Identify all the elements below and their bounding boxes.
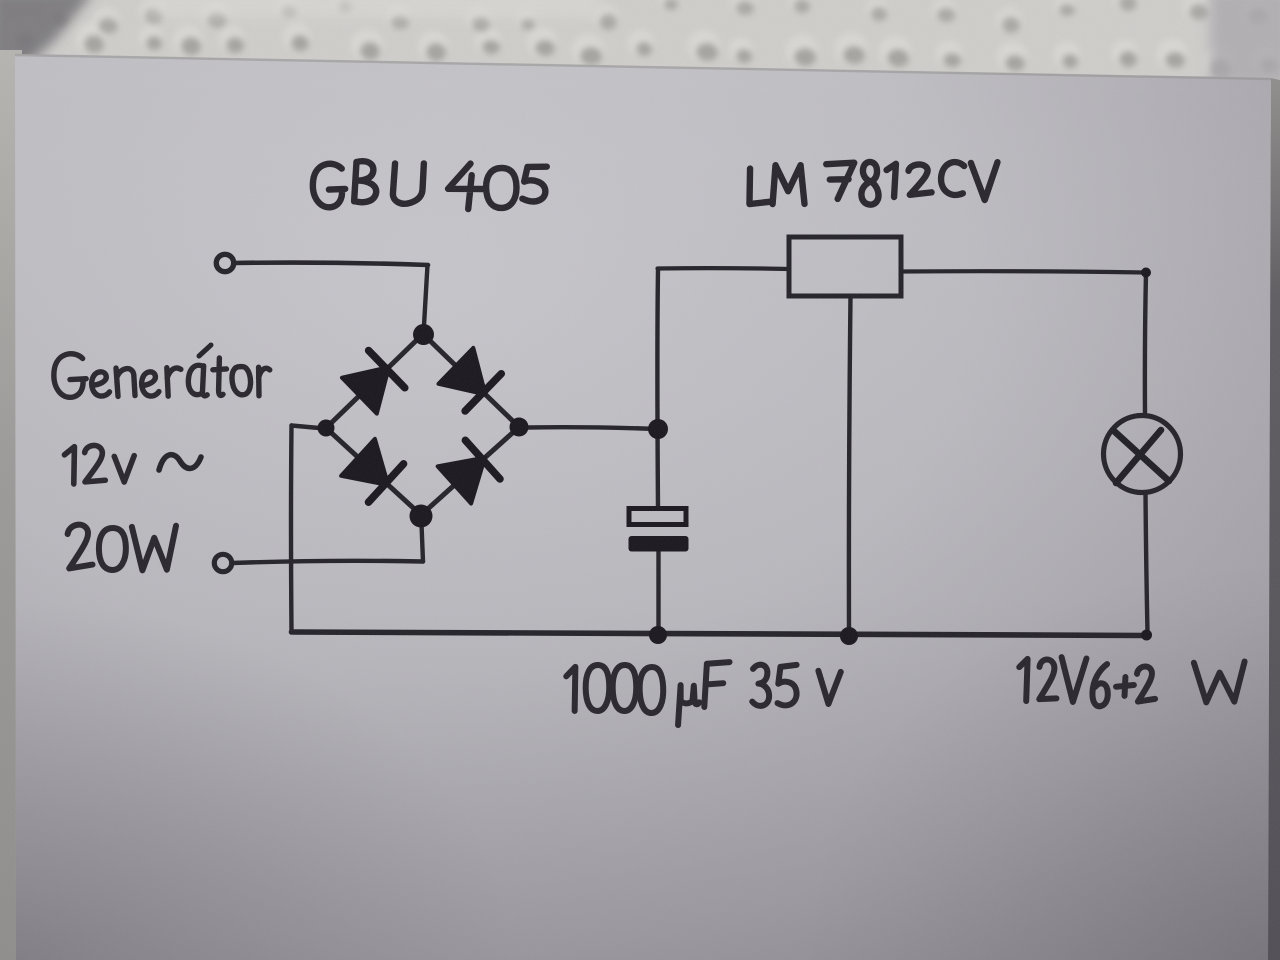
junction node: lamp corner top — [1141, 268, 1151, 278]
capacitor C1 top plate (hollow) — [629, 509, 686, 525]
junction node: capacitor top — [648, 419, 668, 439]
label 20W — [67, 524, 177, 571]
wire bridge bottom node down to 20W wire — [422, 524, 424, 562]
wire bridge right node to capacitor node — [527, 427, 658, 429]
lamp X cross — [1114, 430, 1169, 483]
label Generator — [54, 345, 270, 397]
contact shadow along top edge of paper — [15, 55, 1271, 79]
bottom rail wire — [292, 632, 1148, 636]
dark gap right of paper — [1268, 78, 1280, 960]
junction node: rail right end — [1141, 630, 1152, 641]
paper-towel background (top band) — [0, 0, 1280, 130]
wire left vertical down — [289, 426, 294, 632]
capacitor C1 bottom wire — [656, 551, 660, 633]
junction node: bridge left — [318, 420, 335, 437]
diode D1 (left-top arm) — [342, 351, 405, 414]
lamp L1 circle — [1104, 416, 1181, 493]
bridge GBU405 diamond wires — [326, 334, 519, 515]
corner vignettes on paper — [0, 0, 1, 1]
wire bottom terminal to bridge bottom leg — [232, 561, 423, 563]
AC tilde symbol — [159, 455, 201, 470]
regulator U1 box LM7812CV — [789, 237, 901, 296]
capacitor C1 bottom plate (solid) — [629, 536, 689, 552]
label 12V 6+2W (lamp rating) — [1019, 657, 1246, 706]
terminal (generator bottom) — [214, 554, 231, 571]
diode D3 (left-bottom arm) — [341, 439, 404, 502]
lamp bottom wire — [1146, 493, 1148, 633]
label GBU405 (bridge) — [313, 161, 547, 210]
wire lamp drop from corner — [1145, 273, 1146, 416]
diode D2 (top-right arm) — [439, 348, 502, 411]
junction node: capacitor bottom rail — [649, 626, 667, 644]
diode D4 (bottom-right arm) — [438, 440, 500, 503]
terminal (generator top) — [216, 254, 233, 271]
label 1000uF 35V (capacitor value) — [566, 662, 841, 726]
wire regulator ground pin — [849, 296, 851, 634]
wire top terminal to corner — [234, 263, 428, 265]
junction node: bridge bottom — [410, 505, 433, 528]
towel left strip below paper corner — [0, 50, 22, 960]
wire bridge left node to left corner — [292, 426, 320, 429]
wire regulator right to lamp corner — [901, 271, 1146, 272]
junction node: bridge top — [413, 324, 434, 345]
wire capacitor node vertical — [655, 270, 660, 508]
label LM7812CV (regulator) — [748, 162, 998, 205]
wire top-left rail to regulator — [658, 266, 790, 271]
junction node: regulator ground on rail — [840, 627, 858, 645]
towel shading: darker top-left corner — [0, 0, 1280, 85]
wire corner down to bridge top — [424, 265, 428, 334]
junction node: bridge right — [510, 418, 529, 437]
label 12v — [64, 445, 135, 484]
